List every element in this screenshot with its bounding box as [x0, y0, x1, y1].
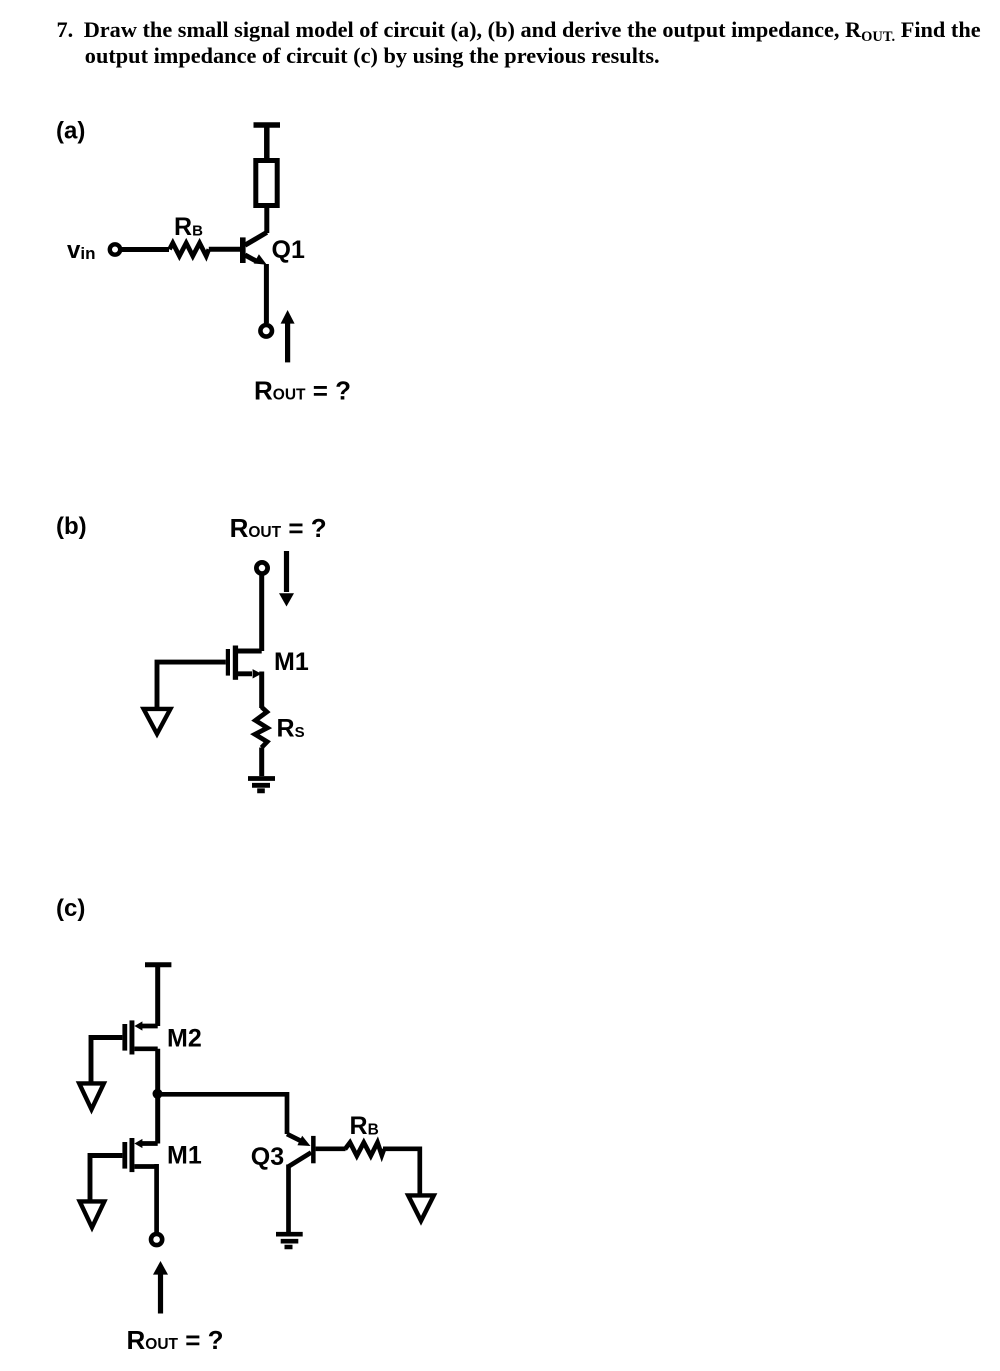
ground arrow (circuit c, M2 gate)	[79, 1083, 104, 1109]
wire terminal to drain	[259, 575, 264, 651]
wire vin to RB	[122, 247, 169, 252]
earth ground (circuit c, Q3 collector)	[276, 1234, 303, 1247]
svg-text:ROUT = ?: ROUT = ?	[230, 513, 327, 543]
svg-text:RB: RB	[350, 1112, 379, 1140]
svg-text:M2: M2	[167, 1025, 202, 1053]
svg-text:vin: vin	[67, 237, 95, 264]
supply rail symbol (circuit c)	[145, 965, 171, 1026]
wire RB to ground arrow	[383, 1147, 420, 1196]
transistor Q1 (NPN)	[240, 232, 267, 323]
wire Q3 base to RB	[316, 1146, 346, 1151]
svg-text:(a): (a)	[56, 118, 85, 145]
wire M2 drain to node	[155, 1049, 160, 1094]
earth ground (circuit b)	[248, 779, 275, 791]
arrow ROUT (circuit c, pointing up)	[153, 1261, 168, 1314]
resistor RB (zigzag, circuit a)	[170, 243, 209, 256]
MOSFET M1 (circuit b, NMOS)	[226, 646, 262, 680]
terminal ROUT (circuit c, open circle)	[151, 1234, 162, 1245]
terminal vin (open circle)	[110, 244, 120, 254]
svg-text:Q1: Q1	[272, 236, 305, 264]
resistor RC (circuit a, collector resistor)	[256, 161, 277, 206]
wire RS to ground	[259, 748, 264, 777]
supply rail symbol (circuit a)	[254, 125, 281, 161]
wire node to Q3 emitter	[158, 1092, 288, 1134]
wire resistor-bottom to collector	[264, 205, 269, 233]
svg-text:(c): (c)	[56, 895, 85, 922]
svg-text:(b): (b)	[56, 513, 87, 540]
svg-text:ROUT = ?: ROUT = ?	[127, 1325, 224, 1355]
MOSFET M2 (circuit c, PMOS)	[122, 1020, 157, 1054]
MOSFET M1 (circuit c, PMOS)	[122, 1138, 157, 1172]
svg-text:Q3: Q3	[251, 1143, 284, 1171]
ground arrow (circuit c, M1 gate)	[80, 1201, 105, 1227]
gate wire M1 (circuit c)	[90, 1156, 122, 1202]
svg-text:RS: RS	[277, 715, 305, 743]
node junction dot	[153, 1089, 163, 1099]
terminal ROUT (circuit b, open circle)	[256, 562, 267, 573]
wire RB to base	[209, 247, 240, 252]
svg-text:RB: RB	[174, 213, 203, 241]
svg-text:M1: M1	[167, 1142, 202, 1170]
terminal ROUT (circuit a, open circle)	[260, 325, 272, 337]
gate wire M2 (circuit c)	[91, 1038, 122, 1084]
problem statement text	[57, 17, 981, 46]
svg-text:ROUT = ?: ROUT = ?	[254, 376, 351, 406]
gate wire M1 (circuit b)	[157, 662, 226, 707]
wire node to M1 drain	[155, 1094, 160, 1144]
resistor RS (zigzag, circuit b)	[255, 707, 268, 748]
arrow ROUT (circuit a, pointing up)	[281, 310, 295, 362]
resistor RB (zigzag, circuit c)	[345, 1143, 384, 1156]
arrow ROUT (circuit b, pointing down)	[279, 551, 294, 607]
wire source to RS	[259, 672, 264, 709]
transistor Q3 (PNP)	[287, 1134, 316, 1232]
svg-text:M1: M1	[274, 648, 309, 676]
wire M1 source down to terminal	[154, 1164, 159, 1232]
ground arrow (circuit b, gate)	[144, 709, 171, 734]
ground arrow (circuit c, right of RB)	[408, 1195, 434, 1220]
